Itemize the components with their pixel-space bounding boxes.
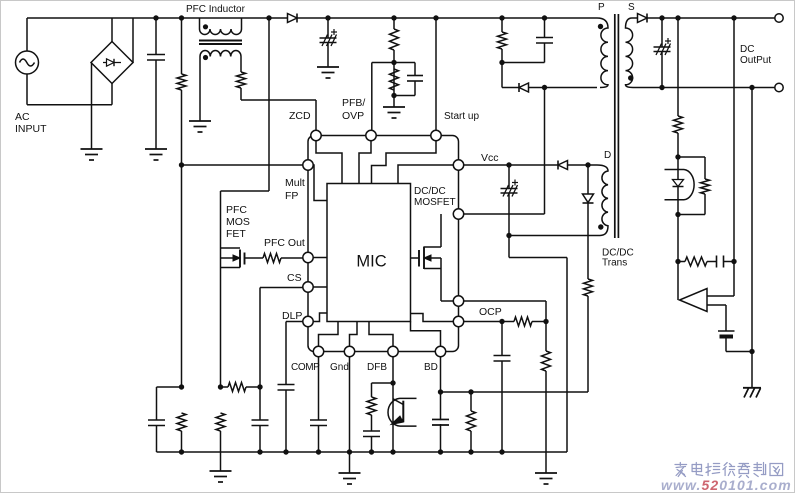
svg-text:DC: DC	[740, 44, 754, 55]
svg-text:FP: FP	[285, 190, 298, 202]
svg-text:Trans: Trans	[602, 258, 627, 269]
svg-text:S: S	[628, 2, 635, 13]
svg-text:DLP: DLP	[282, 310, 302, 322]
svg-text:MOS: MOS	[226, 216, 250, 228]
svg-text:MIC: MIC	[356, 253, 386, 271]
svg-text:OCP: OCP	[479, 306, 502, 318]
svg-text:PFB/: PFB/	[342, 97, 365, 109]
svg-text:BD: BD	[424, 362, 438, 373]
svg-text:D: D	[604, 150, 611, 161]
svg-text:ZCD: ZCD	[289, 110, 311, 122]
svg-text:OutPut: OutPut	[740, 55, 771, 66]
svg-text:MOSFET: MOSFET	[414, 197, 456, 208]
svg-text:AC: AC	[15, 111, 30, 123]
svg-text:PFC: PFC	[226, 204, 247, 216]
svg-text:www.520101.com: www.520101.com	[661, 477, 792, 493]
svg-text:DC/DC: DC/DC	[414, 186, 446, 197]
svg-text:INPUT: INPUT	[15, 123, 47, 135]
svg-text:Gnd: Gnd	[330, 362, 349, 373]
svg-text:Vcc: Vcc	[481, 152, 499, 164]
svg-text:PFC Out: PFC Out	[264, 237, 305, 249]
svg-text:COMP: COMP	[291, 362, 320, 373]
svg-text:DFB: DFB	[367, 362, 387, 373]
svg-text:Start up: Start up	[444, 111, 479, 122]
svg-text:OVP: OVP	[342, 110, 364, 122]
svg-text:PFC Inductor: PFC Inductor	[186, 4, 246, 15]
svg-text:Mult: Mult	[285, 177, 305, 189]
svg-text:P: P	[598, 2, 605, 13]
svg-text:FET: FET	[226, 228, 246, 240]
svg-text:CS: CS	[287, 272, 302, 284]
